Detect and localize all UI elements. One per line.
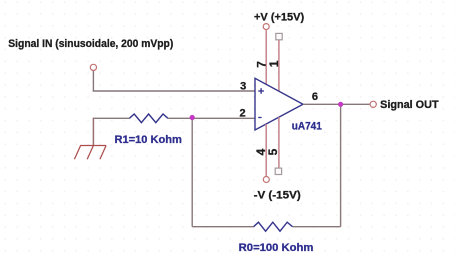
- terminal +V: [263, 24, 269, 30]
- terminal Signal IN: [90, 64, 96, 70]
- svg-text:6: 6: [312, 91, 318, 103]
- svg-text:-V (-15V): -V (-15V): [254, 190, 301, 202]
- junction at R1 / pin 2: [190, 115, 195, 120]
- svg-text:+V (+15V): +V (+15V): [254, 12, 304, 24]
- resistor R1: [129, 114, 168, 123]
- wire from Signal IN terminal down: [92, 71, 94, 91]
- svg-text:1: 1: [267, 60, 281, 67]
- svg-text:R1=10 Kohm: R1=10 Kohm: [115, 134, 182, 146]
- wire Signal IN to op-amp pin 3: [93, 90, 255, 92]
- svg-text:3: 3: [240, 81, 246, 93]
- terminal pin 1 square: [276, 33, 282, 39]
- wire pin 1 riser: [278, 40, 280, 91]
- svg-text:2: 2: [240, 108, 246, 120]
- wire pin 4 drop: [265, 124, 267, 176]
- wire ground to R1: [93, 117, 129, 119]
- wire ground riser: [92, 118, 94, 146]
- wire feedback bottom left: [192, 226, 253, 228]
- ground: [74, 146, 106, 160]
- svg-text:Signal OUT: Signal OUT: [380, 99, 439, 111]
- wire pin 7 riser: [265, 30, 267, 84]
- wire pin 5 drop: [278, 117, 280, 168]
- terminal Signal OUT: [370, 101, 376, 107]
- svg-text:5: 5: [266, 148, 280, 155]
- terminal -V: [263, 177, 269, 183]
- svg-text:uA741: uA741: [292, 121, 322, 133]
- wire R1 to junction: [168, 117, 192, 119]
- terminal pin 5 square: [275, 168, 281, 174]
- junction at output / feedback: [338, 102, 343, 107]
- wire junction to op-amp pin 2: [192, 117, 255, 119]
- svg-text:Signal IN (sinusoidale, 200 mV: Signal IN (sinusoidale, 200 mVpp): [8, 38, 173, 50]
- wire op-amp output: [303, 103, 370, 105]
- wire feedback bottom right: [293, 226, 341, 228]
- wire feedback left vertical: [191, 118, 193, 226]
- op-amp U1: [255, 78, 303, 130]
- resistor R0: [254, 222, 293, 231]
- svg-text:R0=100 Kohm: R0=100 Kohm: [239, 242, 314, 254]
- wire feedback right vertical: [340, 104, 342, 226]
